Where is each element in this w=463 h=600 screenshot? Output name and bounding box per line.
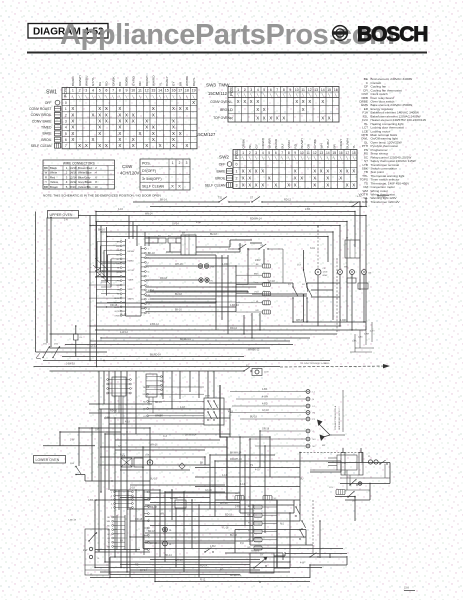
extra pin feed wires bbox=[89, 258, 121, 302]
svg-text:BK/WH: BK/WH bbox=[128, 251, 135, 253]
svg-text:4-14: 4-14 bbox=[240, 483, 245, 486]
svg-text:X: X bbox=[269, 115, 272, 120]
svg-text:WH-18: WH-18 bbox=[175, 263, 183, 266]
svg-text:RD-12: RD-12 bbox=[230, 327, 238, 330]
svg-text:GY/YL: GY/YL bbox=[91, 77, 95, 86]
svg-text:15-8: 15-8 bbox=[404, 587, 409, 590]
svg-text:X: X bbox=[171, 184, 174, 189]
svg-text:YL/BU: YL/BU bbox=[326, 140, 330, 149]
svg-text:GY-14: GY-14 bbox=[90, 345, 97, 348]
svg-text:RD/WH: RD/WH bbox=[261, 138, 265, 148]
svg-text:2: 2 bbox=[179, 161, 181, 165]
svg-text:X: X bbox=[346, 183, 349, 188]
svg-text:WH-16: WH-16 bbox=[150, 444, 158, 447]
svg-text:WIRE CONNECTORS: WIRE CONNECTORS bbox=[63, 161, 95, 165]
svg-text:OR: OR bbox=[130, 496, 134, 499]
heater coil chain (lower) bbox=[247, 505, 277, 550]
svg-text:3-BK-18: 3-BK-18 bbox=[68, 520, 77, 522]
lower oven label bbox=[34, 456, 66, 464]
POS mode table bbox=[140, 159, 190, 190]
left riser w1 bbox=[50, 218, 52, 348]
svg-text:Yellow/Blk: Yellow/Blk bbox=[78, 185, 91, 189]
svg-text:2: 2 bbox=[236, 177, 238, 181]
svg-text:1: 1 bbox=[237, 88, 239, 92]
svg-text:X: X bbox=[85, 143, 88, 148]
svg-text:240V: 240V bbox=[255, 259, 261, 262]
lower vertical mesh bbox=[60, 404, 390, 582]
svg-text:╲: ╲ bbox=[158, 95, 161, 99]
junction dots lower bbox=[59, 403, 370, 582]
switch unit SBK bbox=[250, 551, 274, 573]
left riser w4 bbox=[96, 222, 98, 367]
svg-text:BK-16: BK-16 bbox=[175, 309, 182, 312]
svg-text:4-BK-16: 4-BK-16 bbox=[230, 304, 239, 307]
switch table SW2 15CM/127 bbox=[196, 132, 357, 189]
svg-text:X: X bbox=[172, 143, 175, 148]
svg-text:POS.: POS. bbox=[142, 161, 151, 165]
svg-text:10: 10 bbox=[94, 185, 98, 189]
svg-text:1-BU: 1-BU bbox=[210, 545, 216, 548]
svg-text:17: 17 bbox=[178, 89, 182, 93]
svg-text:4-W-12: 4-W-12 bbox=[120, 331, 128, 334]
svg-text:OR-18: OR-18 bbox=[135, 518, 143, 521]
svg-text:X: X bbox=[268, 176, 271, 181]
svg-text:X: X bbox=[132, 143, 135, 148]
lower clock pins bbox=[143, 386, 204, 418]
svg-text:12: 12 bbox=[313, 151, 317, 155]
svg-text:╲: ╲ bbox=[111, 95, 114, 99]
svg-text:X: X bbox=[118, 112, 121, 117]
svg-text:0: 0 bbox=[236, 163, 238, 167]
svg-text:BU-18: BU-18 bbox=[230, 534, 237, 537]
svg-text:P-6: P-6 bbox=[240, 542, 244, 545]
svg-text:1: 1 bbox=[72, 89, 74, 93]
svg-text:X: X bbox=[152, 125, 155, 130]
svg-text:120V: 120V bbox=[264, 372, 269, 374]
svg-text:CONNECTOR BLOCK A: CONNECTOR BLOCK A bbox=[334, 405, 337, 430]
svg-text:4-RD: 4-RD bbox=[262, 403, 268, 406]
svg-text:8: 8 bbox=[283, 88, 285, 92]
svg-text:X: X bbox=[98, 112, 101, 117]
svg-text:X: X bbox=[256, 99, 259, 104]
svg-text:4-W: 4-W bbox=[300, 562, 305, 565]
oven lamp OL3 bbox=[163, 541, 173, 546]
svg-text:TIMED: TIMED bbox=[41, 126, 52, 130]
svg-text:WH/BR: WH/BR bbox=[267, 137, 271, 148]
left riser w2 bbox=[89, 216, 91, 361]
svg-text:X: X bbox=[294, 169, 297, 174]
svg-text:TN: TN bbox=[117, 289, 120, 291]
svg-text:X: X bbox=[145, 119, 148, 124]
svg-text:2: 2 bbox=[249, 151, 251, 155]
right element bar E1 bbox=[341, 448, 345, 475]
lower bus mesh bbox=[43, 404, 390, 582]
connector diamond CD1 bbox=[179, 463, 185, 469]
svg-text:9: 9 bbox=[289, 88, 291, 92]
svg-text:BU: BU bbox=[117, 255, 120, 257]
svg-text:8: 8 bbox=[288, 151, 290, 155]
svg-text:Blue/Grey: Blue/Grey bbox=[78, 175, 91, 179]
svg-text:╲: ╲ bbox=[308, 93, 311, 97]
thermostat TS1 on bus L1 bbox=[218, 197, 230, 203]
svg-text:╲: ╲ bbox=[327, 93, 330, 97]
door switch DS2 bbox=[52, 343, 60, 358]
svg-text:9: 9 bbox=[294, 151, 296, 155]
svg-text:BU: BU bbox=[300, 478, 304, 481]
contact C7 bbox=[309, 553, 318, 558]
svg-text:X: X bbox=[192, 100, 195, 105]
svg-text:1: 1 bbox=[242, 151, 244, 155]
right drop r7 bbox=[327, 237, 329, 263]
svg-text:X: X bbox=[261, 183, 264, 188]
svg-text:VI/PK: VI/PK bbox=[128, 289, 134, 291]
svg-text:8/10: 8/10 bbox=[70, 185, 76, 189]
svg-text:X: X bbox=[152, 112, 155, 117]
svg-text:WH: WH bbox=[319, 143, 323, 148]
svg-text:BAKE: BAKE bbox=[42, 132, 52, 136]
svg-text:2-W: 2-W bbox=[83, 549, 88, 552]
svg-text:RD/WH-14: RD/WH-14 bbox=[250, 218, 262, 221]
door lock relay DLB bbox=[121, 456, 143, 468]
svg-text:2-BK-12: 2-BK-12 bbox=[150, 323, 159, 326]
svg-text:X: X bbox=[139, 131, 142, 136]
svg-text:X: X bbox=[92, 137, 95, 142]
svg-text:X: X bbox=[300, 176, 303, 181]
svg-text:5: 5 bbox=[65, 132, 67, 136]
svg-text:╲: ╲ bbox=[151, 95, 154, 99]
svg-text:GY/BK: GY/BK bbox=[313, 138, 317, 148]
neutral main run (bold) bbox=[220, 385, 277, 568]
svg-text:X: X bbox=[256, 107, 259, 112]
svg-text:CSW: CSW bbox=[122, 164, 133, 169]
svg-text:WH/BK: WH/BK bbox=[185, 75, 189, 86]
svg-text:X: X bbox=[308, 99, 311, 104]
svg-text:18: 18 bbox=[185, 89, 189, 93]
svg-text:CONV BAKE: CONV BAKE bbox=[32, 119, 53, 123]
svg-text:X: X bbox=[248, 176, 251, 181]
svg-text:2-RD: 2-RD bbox=[235, 506, 241, 509]
supply lead arrow bbox=[280, 362, 390, 368]
svg-text:White: White bbox=[50, 171, 58, 175]
svg-text:WH/BK: WH/BK bbox=[155, 415, 163, 418]
svg-text:╲: ╲ bbox=[261, 156, 264, 160]
svg-text:Transformer 120/12V: Transformer 120/12V bbox=[371, 200, 401, 204]
svg-text:GY/OR: GY/OR bbox=[128, 270, 135, 272]
svg-text:X: X bbox=[248, 169, 251, 174]
door switch DS1 bbox=[42, 343, 50, 358]
door plunger contact bbox=[36, 353, 41, 359]
svg-text:5-18: 5-18 bbox=[130, 487, 135, 490]
selector switch unit SW2 box bbox=[204, 396, 224, 425]
svg-text:BK: BK bbox=[44, 166, 48, 170]
svg-text:GN: GN bbox=[116, 285, 120, 287]
svg-text:2: 2 bbox=[65, 113, 67, 117]
svg-text:╲: ╲ bbox=[301, 93, 304, 97]
svg-text:╲: ╲ bbox=[172, 95, 175, 99]
svg-text:LCE: LCE bbox=[145, 454, 150, 456]
svg-text:SC: SC bbox=[274, 498, 277, 500]
svg-text:X: X bbox=[159, 143, 162, 148]
svg-text:╲: ╲ bbox=[125, 95, 128, 99]
svg-text:RD: RD bbox=[105, 81, 109, 86]
indicator lamp HL2 bbox=[205, 278, 214, 283]
svg-text:AppliancePartsPros.com: AppliancePartsPros.com bbox=[60, 19, 395, 51]
svg-text:WH/RD: WH/RD bbox=[152, 75, 156, 86]
svg-text:╲: ╲ bbox=[300, 156, 303, 160]
svg-text:120V: 120V bbox=[323, 272, 328, 274]
svg-text:POS.: POS. bbox=[63, 87, 68, 98]
svg-text:╲: ╲ bbox=[306, 156, 309, 160]
svg-text:4: 4 bbox=[257, 88, 259, 92]
svg-text:OR-18: OR-18 bbox=[262, 428, 270, 431]
svg-text:7: 7 bbox=[281, 151, 283, 155]
svg-text:BU-18: BU-18 bbox=[250, 416, 257, 419]
lower pin column bbox=[144, 490, 149, 555]
right margin stubs bbox=[350, 322, 375, 352]
svg-text:Brown/Red: Brown/Red bbox=[78, 166, 92, 170]
svg-text:X: X bbox=[179, 106, 182, 111]
svg-text:BK/WH-14: BK/WH-14 bbox=[185, 434, 197, 437]
svg-text:YL: YL bbox=[158, 82, 162, 86]
right drop r1 bbox=[365, 216, 367, 331]
svg-text:X: X bbox=[71, 131, 74, 136]
wire connectors color-code table bbox=[43, 160, 115, 189]
lower relay contacts right bbox=[295, 506, 305, 539]
svg-text:WH-16: WH-16 bbox=[296, 319, 304, 322]
svg-text:2: 2 bbox=[244, 88, 246, 92]
motor junction box MJ2 bbox=[358, 283, 368, 289]
Bosch emblem bbox=[333, 26, 348, 41]
svg-text:BK: BK bbox=[120, 540, 124, 543]
left riser w1b bbox=[46, 218, 48, 344]
svg-text:╲: ╲ bbox=[241, 156, 244, 160]
lock motor LCE bbox=[145, 454, 153, 465]
svg-text:3-BK-18: 3-BK-18 bbox=[66, 362, 75, 365]
svg-text:2-BK: 2-BK bbox=[305, 208, 311, 211]
svg-text:X: X bbox=[313, 176, 316, 181]
svg-text:X: X bbox=[321, 99, 324, 104]
svg-text:X: X bbox=[172, 137, 175, 142]
svg-text:TS: TS bbox=[250, 464, 253, 467]
svg-text:ER: ER bbox=[182, 233, 186, 235]
right element bar E2 bbox=[359, 448, 363, 475]
svg-text:BK-18: BK-18 bbox=[170, 497, 177, 500]
svg-text:YL-18: YL-18 bbox=[120, 313, 127, 316]
svg-text:X: X bbox=[152, 106, 155, 111]
svg-text:9: 9 bbox=[126, 89, 128, 93]
lower coil SC3 bbox=[235, 493, 244, 500]
svg-text:X: X bbox=[263, 107, 266, 112]
svg-text:GY: GY bbox=[260, 554, 264, 557]
svg-text:4-18: 4-18 bbox=[228, 410, 233, 413]
svg-text:1: 1 bbox=[65, 107, 67, 111]
svg-text:X: X bbox=[185, 143, 188, 148]
svg-text:X: X bbox=[78, 143, 81, 148]
svg-text:ST: ST bbox=[250, 197, 254, 200]
svg-text:BK-18: BK-18 bbox=[148, 252, 155, 255]
header rule bbox=[27, 52, 427, 54]
svg-text:60HZ: 60HZ bbox=[323, 275, 329, 277]
svg-text:LOWER OVEN: LOWER OVEN bbox=[36, 458, 60, 462]
relay board box RB bbox=[175, 498, 186, 508]
svg-text:OR: OR bbox=[116, 263, 120, 265]
svg-text:GY: GY bbox=[254, 144, 258, 148]
svg-text:BU: BU bbox=[280, 144, 284, 148]
right relay frame TS2 bbox=[337, 455, 357, 470]
svg-text:14: 14 bbox=[326, 151, 330, 155]
svg-text:WH/BK-12: WH/BK-12 bbox=[248, 349, 260, 352]
svg-text:╲: ╲ bbox=[185, 95, 188, 99]
left frame wire bbox=[35, 212, 37, 353]
svg-text:X: X bbox=[105, 112, 108, 117]
indicator lamp OWL1 bbox=[198, 264, 202, 268]
svg-text:CONV ROAST: CONV ROAST bbox=[29, 107, 51, 111]
svg-text:WH-14: WH-14 bbox=[145, 212, 153, 215]
svg-text:RD: RD bbox=[116, 250, 120, 252]
top supply bus L1 bbox=[133, 201, 219, 203]
svg-text:BK-14: BK-14 bbox=[165, 554, 172, 557]
svg-text:4CH/120V: 4CH/120V bbox=[120, 171, 140, 176]
step out wires bbox=[274, 500, 370, 578]
svg-text:╲: ╲ bbox=[319, 156, 322, 160]
lock motor assembly F2 bbox=[243, 365, 269, 375]
svg-text:GY-18: GY-18 bbox=[262, 409, 269, 412]
svg-text:BROIL: BROIL bbox=[215, 176, 225, 180]
svg-text:X: X bbox=[71, 137, 74, 142]
svg-text:BU: BU bbox=[98, 82, 102, 86]
motor junction box MJ1 bbox=[347, 278, 356, 283]
top bus RD bbox=[96, 221, 347, 223]
svg-text:NC: NC bbox=[313, 446, 317, 448]
svg-text:X: X bbox=[237, 99, 240, 104]
svg-text:10/12: 10/12 bbox=[70, 180, 77, 184]
CNB drop wires bbox=[149, 397, 153, 413]
svg-text:╲: ╲ bbox=[178, 95, 181, 99]
svg-text:X: X bbox=[71, 106, 74, 111]
svg-text:14: 14 bbox=[321, 88, 325, 92]
oven selector contact S1 bbox=[288, 283, 298, 322]
svg-text:BROIL: BROIL bbox=[220, 108, 230, 112]
lower connector ladder L2 bbox=[107, 515, 125, 550]
sensor terminal strip bbox=[280, 390, 316, 448]
svg-text:3-BK-18: 3-BK-18 bbox=[88, 499, 97, 502]
svg-text:BK-16: BK-16 bbox=[98, 228, 105, 231]
svg-text:N-1: N-1 bbox=[280, 522, 285, 525]
svg-text:UPPER OVEN: UPPER OVEN bbox=[50, 213, 73, 217]
lock thermostat contact LCT bbox=[297, 250, 308, 322]
left riser w3 bbox=[95, 212, 97, 269]
clock unit TMW pin column A bbox=[114, 239, 126, 317]
svg-text:╲: ╲ bbox=[138, 95, 141, 99]
svg-text:3: 3 bbox=[65, 120, 67, 124]
svg-text:GY-16: GY-16 bbox=[205, 489, 212, 492]
svg-text:4: 4 bbox=[92, 89, 94, 93]
svg-text:X: X bbox=[326, 183, 329, 188]
svg-text:TO JUNCTION BOX 3-4 AWG: TO JUNCTION BOX 3-4 AWG bbox=[300, 362, 330, 365]
lock motor WM2 bbox=[344, 267, 354, 275]
svg-text:1: 1 bbox=[236, 170, 238, 174]
svg-text:X: X bbox=[313, 169, 316, 174]
svg-text:13: 13 bbox=[151, 89, 155, 93]
svg-text:X: X bbox=[71, 119, 74, 124]
oven lamp fuse OL bbox=[74, 326, 84, 357]
lower coil SC4 bbox=[263, 496, 277, 501]
svg-text:X: X bbox=[294, 176, 297, 181]
svg-text:GN/TN: GN/TN bbox=[128, 299, 135, 301]
svg-text:X: X bbox=[145, 125, 148, 130]
svg-text:YL/BR: YL/BR bbox=[128, 280, 134, 282]
svg-text:RD-18: RD-18 bbox=[160, 277, 168, 280]
svg-text:RD/BU: RD/BU bbox=[128, 261, 135, 263]
left riser w6 bbox=[106, 227, 108, 296]
svg-text:1-BK: 1-BK bbox=[352, 341, 357, 343]
svg-text:14/16: 14/16 bbox=[70, 171, 77, 175]
svg-text:TOP OVEN: TOP OVEN bbox=[213, 116, 231, 120]
svg-text:RD: RD bbox=[135, 564, 139, 567]
svg-text:X: X bbox=[242, 183, 245, 188]
CNA drop wires bbox=[115, 396, 123, 424]
svg-text:X: X bbox=[118, 119, 121, 124]
svg-text:X: X bbox=[172, 131, 175, 136]
svg-text:X: X bbox=[132, 137, 135, 142]
svg-text:BU-18: BU-18 bbox=[210, 233, 217, 236]
svg-text:X: X bbox=[263, 115, 266, 120]
svg-text:BU/WH: BU/WH bbox=[345, 138, 349, 148]
svg-text:X: X bbox=[295, 99, 298, 104]
svg-text:Grey/Black: Grey/Black bbox=[78, 180, 92, 184]
svg-text:CM: CM bbox=[368, 273, 372, 275]
svg-text:SEE WIRING NOTE 2: SEE WIRING NOTE 2 bbox=[339, 408, 341, 430]
svg-text:╲: ╲ bbox=[104, 95, 107, 99]
svg-text:SW2: SW2 bbox=[219, 155, 229, 160]
svg-text:12: 12 bbox=[308, 88, 312, 92]
svg-text:╲: ╲ bbox=[71, 95, 74, 99]
svg-text:EM: EM bbox=[247, 514, 250, 516]
svg-text:WH: WH bbox=[143, 394, 147, 396]
svg-text:X: X bbox=[132, 119, 135, 124]
svg-text:X: X bbox=[118, 125, 121, 130]
svg-text:3-WH: 3-WH bbox=[364, 334, 370, 336]
svg-text:╲: ╲ bbox=[280, 156, 283, 160]
svg-text:X: X bbox=[274, 183, 277, 188]
svg-text:X: X bbox=[326, 169, 329, 174]
right drop r3 bbox=[354, 212, 356, 248]
oven lamp OL2 bbox=[163, 527, 173, 532]
svg-text:SELF CLEAN: SELF CLEAN bbox=[31, 144, 52, 148]
svg-text:SELF CLEAN: SELF CLEAN bbox=[142, 185, 164, 189]
svg-text:ER: ER bbox=[256, 310, 259, 312]
svg-text:BK/YL: BK/YL bbox=[192, 77, 196, 86]
svg-text:BU-18: BU-18 bbox=[175, 293, 182, 296]
top supply bus L2 bbox=[150, 206, 367, 208]
svg-text:R: R bbox=[45, 175, 47, 179]
svg-text:15: 15 bbox=[165, 89, 169, 93]
svg-text:4-16: 4-16 bbox=[118, 208, 123, 211]
svg-text:5: 5 bbox=[99, 89, 101, 93]
svg-text:X: X bbox=[256, 115, 259, 120]
svg-text:15CM/112: 15CM/112 bbox=[208, 91, 228, 96]
left wiring nest to clock pins bbox=[96, 242, 121, 288]
svg-text:╲: ╲ bbox=[345, 156, 348, 160]
svg-text:14: 14 bbox=[158, 89, 162, 93]
svg-text:17: 17 bbox=[345, 151, 349, 155]
svg-text:BK-14: BK-14 bbox=[160, 199, 167, 202]
svg-text:X: X bbox=[172, 125, 175, 130]
svg-text:╲: ╲ bbox=[254, 156, 257, 160]
svg-text:X: X bbox=[302, 107, 305, 112]
svg-text:╲: ╲ bbox=[249, 93, 252, 97]
svg-text:WH-14: WH-14 bbox=[175, 559, 183, 562]
